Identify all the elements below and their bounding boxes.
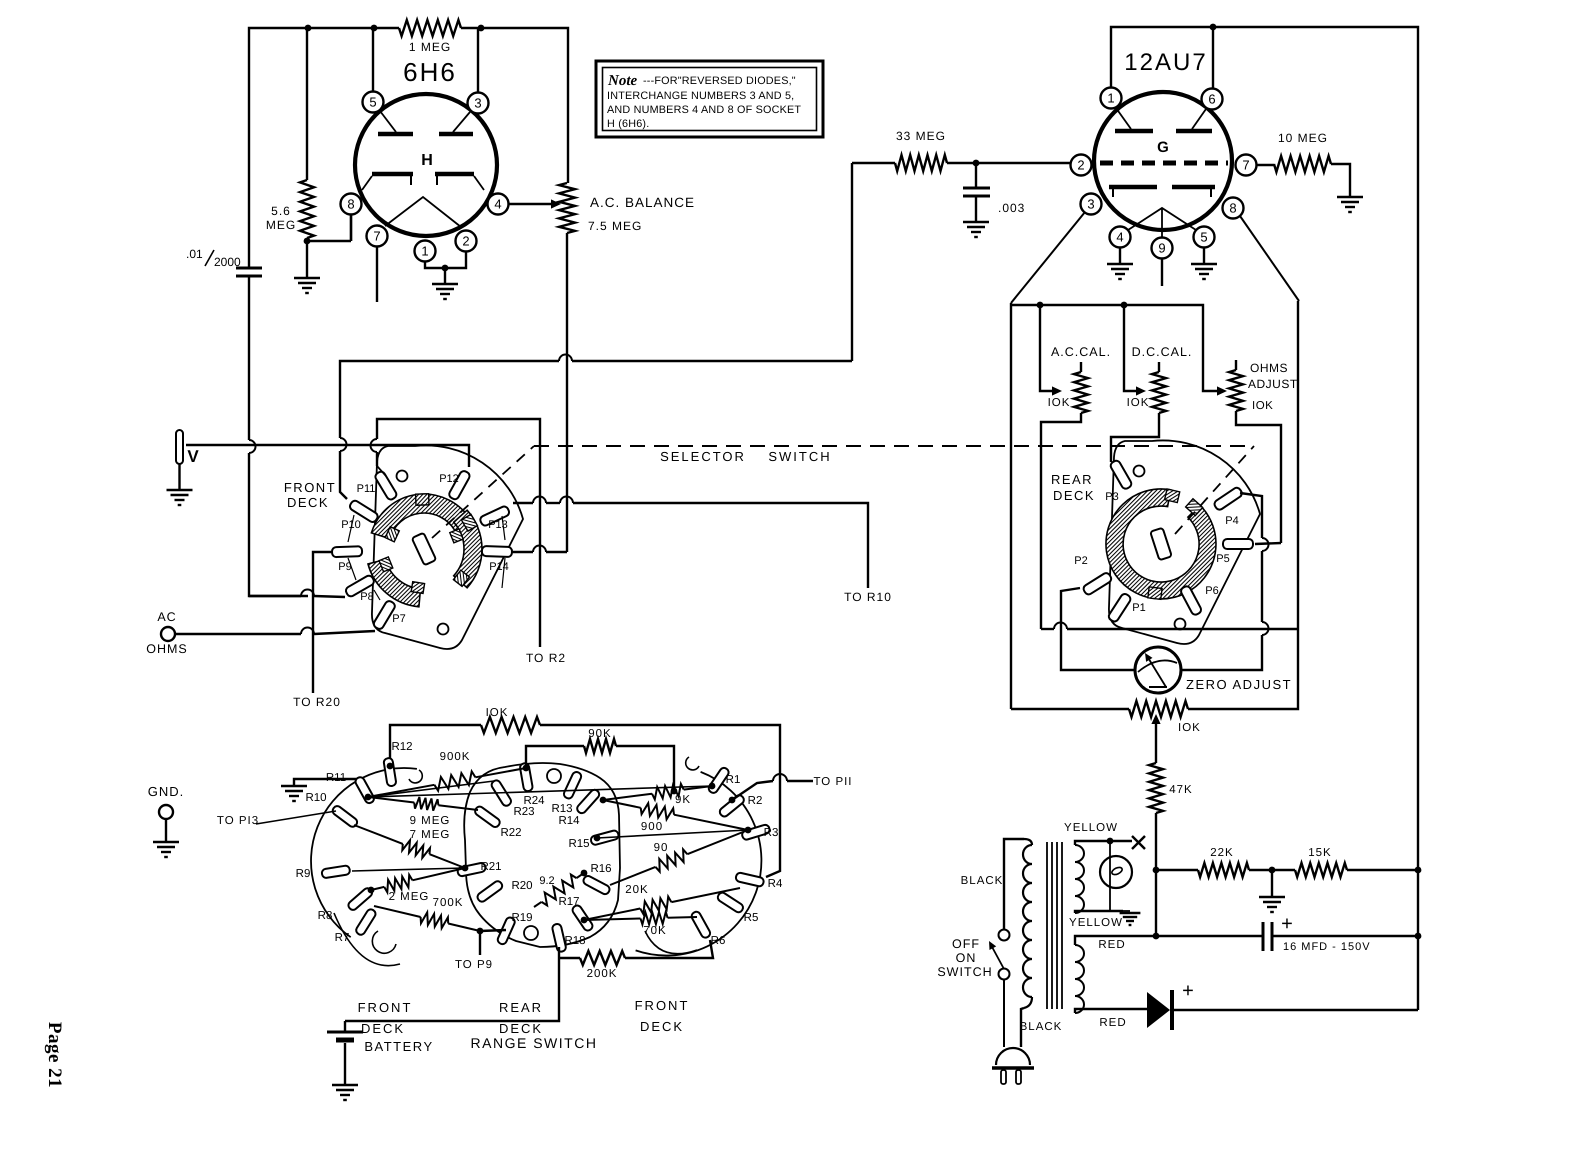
svg-text:TO R10: TO R10 [844, 590, 892, 604]
svg-text:P4: P4 [1225, 515, 1238, 527]
svg-text:DECK: DECK [640, 1019, 684, 1034]
svg-text:AND NUMBERS 4 AND 8 OF SOCKET: AND NUMBERS 4 AND 8 OF SOCKET [607, 104, 801, 116]
svg-text:OHMS: OHMS [1250, 361, 1288, 375]
svg-text:Note: Note [607, 73, 638, 89]
svg-text:900: 900 [641, 821, 663, 833]
svg-text:DECK: DECK [1053, 488, 1095, 503]
svg-text:SELECTOR: SELECTOR [660, 449, 746, 464]
svg-text:5.6: 5.6 [271, 204, 291, 218]
svg-text:P1: P1 [1132, 602, 1145, 614]
svg-text:FRONT: FRONT [358, 1000, 413, 1015]
svg-text:TO R2: TO R2 [526, 651, 566, 665]
svg-text:H (6H6).: H (6H6). [607, 118, 649, 130]
svg-text:9 MEG: 9 MEG [410, 815, 451, 827]
svg-text:700K: 700K [433, 897, 464, 909]
svg-text:.01: .01 [186, 247, 203, 261]
svg-text:RANGE SWITCH: RANGE SWITCH [471, 1035, 598, 1051]
svg-text:R4: R4 [768, 878, 783, 890]
svg-text:+: + [1182, 980, 1194, 1002]
svg-text:MEG: MEG [266, 218, 296, 232]
svg-text:900K: 900K [440, 751, 471, 763]
svg-text:4: 4 [1116, 230, 1123, 245]
svg-text:16 MFD - 150V: 16 MFD - 150V [1283, 941, 1371, 953]
svg-text:R18: R18 [564, 935, 585, 947]
svg-text:R7: R7 [335, 932, 350, 944]
svg-text:P6: P6 [1205, 585, 1218, 597]
svg-text:7: 7 [373, 229, 380, 244]
svg-text:4: 4 [494, 197, 501, 212]
svg-text:IOK: IOK [1127, 397, 1150, 409]
svg-text:1 MEG: 1 MEG [409, 40, 451, 54]
svg-text:FRONT: FRONT [284, 480, 336, 495]
svg-text:R21: R21 [480, 861, 501, 873]
svg-text:22K: 22K [1210, 847, 1233, 859]
svg-text:10 MEG: 10 MEG [1278, 131, 1328, 145]
svg-text:TO PII: TO PII [813, 776, 852, 788]
svg-text:P2: P2 [1074, 555, 1087, 567]
svg-text:IOK: IOK [1048, 397, 1071, 409]
svg-text:.003: .003 [998, 201, 1025, 215]
svg-text:DECK: DECK [361, 1021, 405, 1036]
svg-text:R14: R14 [558, 815, 580, 827]
svg-text:47K: 47K [1169, 784, 1192, 796]
svg-text:R5: R5 [744, 912, 759, 924]
svg-text:R24: R24 [523, 795, 545, 807]
svg-text:R8: R8 [318, 910, 333, 922]
svg-text:R22: R22 [500, 827, 521, 839]
svg-text:DECK: DECK [499, 1021, 543, 1036]
svg-text:ADJUST: ADJUST [1248, 377, 1298, 391]
svg-text:P12: P12 [439, 473, 459, 485]
svg-text:P7: P7 [392, 613, 405, 625]
svg-text:P11: P11 [357, 483, 376, 495]
svg-text:REAR: REAR [1051, 472, 1093, 487]
svg-text:9K: 9K [675, 794, 691, 806]
svg-text:2 MEG: 2 MEG [389, 891, 430, 903]
svg-text:90: 90 [654, 842, 669, 854]
svg-text:R1: R1 [726, 774, 741, 786]
svg-text:5: 5 [369, 95, 376, 110]
svg-text:GND.: GND. [148, 784, 185, 799]
svg-text:3: 3 [474, 96, 481, 111]
svg-text:90K: 90K [588, 728, 611, 740]
svg-text:P14: P14 [489, 561, 509, 573]
svg-text:12AU7: 12AU7 [1124, 49, 1207, 76]
svg-text:P5: P5 [1216, 553, 1229, 565]
svg-text:P13: P13 [488, 519, 508, 531]
svg-text:G: G [1157, 139, 1169, 156]
svg-text:R20: R20 [511, 880, 532, 892]
svg-text:R9: R9 [296, 868, 311, 880]
svg-text:YELLOW: YELLOW [1064, 822, 1118, 834]
svg-text:2000: 2000 [214, 255, 241, 269]
svg-text:15K: 15K [1308, 847, 1331, 859]
svg-text:R16: R16 [590, 863, 611, 875]
svg-text:R11: R11 [326, 772, 346, 784]
svg-text:A.C. BALANCE: A.C. BALANCE [590, 195, 695, 210]
svg-text:YELLOW: YELLOW [1069, 917, 1123, 929]
svg-text:8: 8 [1229, 201, 1236, 216]
svg-text:RED: RED [1099, 1017, 1126, 1029]
svg-text:IOK: IOK [1178, 722, 1201, 734]
svg-text:REAR: REAR [499, 1000, 543, 1015]
svg-text:INTERCHANGE NUMBERS 3 AND: INTERCHANGE NUMBERS 3 AND 5, [607, 90, 794, 102]
svg-text:7.5 MEG: 7.5 MEG [588, 219, 642, 233]
svg-text:TO PI3: TO PI3 [217, 815, 259, 827]
svg-text:AC: AC [157, 610, 176, 624]
svg-text:R6: R6 [711, 935, 726, 947]
svg-text:ON: ON [956, 951, 977, 965]
svg-text:R12: R12 [391, 741, 412, 753]
svg-text:20K: 20K [625, 884, 648, 896]
svg-text:ZERO ADJUST: ZERO ADJUST [1186, 677, 1292, 692]
svg-text:V: V [187, 447, 199, 466]
svg-text:OFF: OFF [952, 937, 980, 951]
svg-text:7: 7 [1242, 158, 1249, 173]
svg-text:P8: P8 [360, 591, 373, 603]
svg-text:R17: R17 [558, 896, 579, 908]
svg-text:R10: R10 [305, 792, 326, 804]
svg-text:H: H [421, 152, 433, 169]
svg-text:BLACK: BLACK [961, 875, 1004, 887]
svg-text:3: 3 [1087, 197, 1094, 212]
svg-text:2: 2 [1077, 158, 1084, 173]
svg-text:R23: R23 [513, 806, 534, 818]
svg-text:9: 9 [1158, 241, 1165, 256]
svg-text:+: + [1281, 913, 1293, 935]
svg-text:IOK: IOK [1252, 400, 1273, 412]
svg-text:33 MEG: 33 MEG [896, 129, 946, 143]
svg-text:SWITCH: SWITCH [937, 965, 992, 979]
svg-text:FRONT: FRONT [635, 998, 690, 1013]
svg-text:OHMS: OHMS [146, 642, 188, 656]
svg-text:1: 1 [421, 244, 428, 259]
svg-text:R15: R15 [568, 838, 589, 850]
svg-text:9.2: 9.2 [539, 875, 554, 887]
svg-text:R2: R2 [748, 795, 763, 807]
svg-text:---FOR"REVERSED DIODES,": ---FOR"REVERSED DIODES," [643, 75, 796, 87]
svg-text:A.C.CAL.: A.C.CAL. [1051, 345, 1111, 359]
svg-text:70K: 70K [643, 925, 666, 937]
svg-text:R13: R13 [551, 803, 572, 815]
svg-text:SWITCH: SWITCH [768, 449, 831, 464]
svg-text:R19: R19 [511, 912, 532, 924]
svg-text:BATTERY: BATTERY [364, 1039, 433, 1054]
svg-text:2: 2 [462, 234, 469, 249]
svg-text:1: 1 [1107, 91, 1114, 106]
svg-text:TO R20: TO R20 [293, 695, 341, 709]
svg-text:200K: 200K [587, 968, 618, 980]
svg-text:Page 21: Page 21 [44, 1022, 65, 1088]
svg-text:5: 5 [1200, 230, 1207, 245]
svg-text:DECK: DECK [287, 495, 329, 510]
svg-text:P3: P3 [1105, 491, 1118, 503]
svg-text:6: 6 [1208, 92, 1215, 107]
svg-text:BLACK: BLACK [1020, 1021, 1063, 1033]
svg-text:6H6: 6H6 [403, 57, 457, 87]
svg-text:IOK: IOK [486, 707, 509, 719]
svg-text:8: 8 [347, 197, 354, 212]
svg-text:7 MEG: 7 MEG [410, 829, 451, 841]
svg-text:RED: RED [1098, 939, 1125, 951]
svg-text:D.C.CAL.: D.C.CAL. [1132, 345, 1193, 359]
svg-text:TO P9: TO P9 [455, 959, 493, 971]
svg-text:R3: R3 [764, 827, 779, 839]
